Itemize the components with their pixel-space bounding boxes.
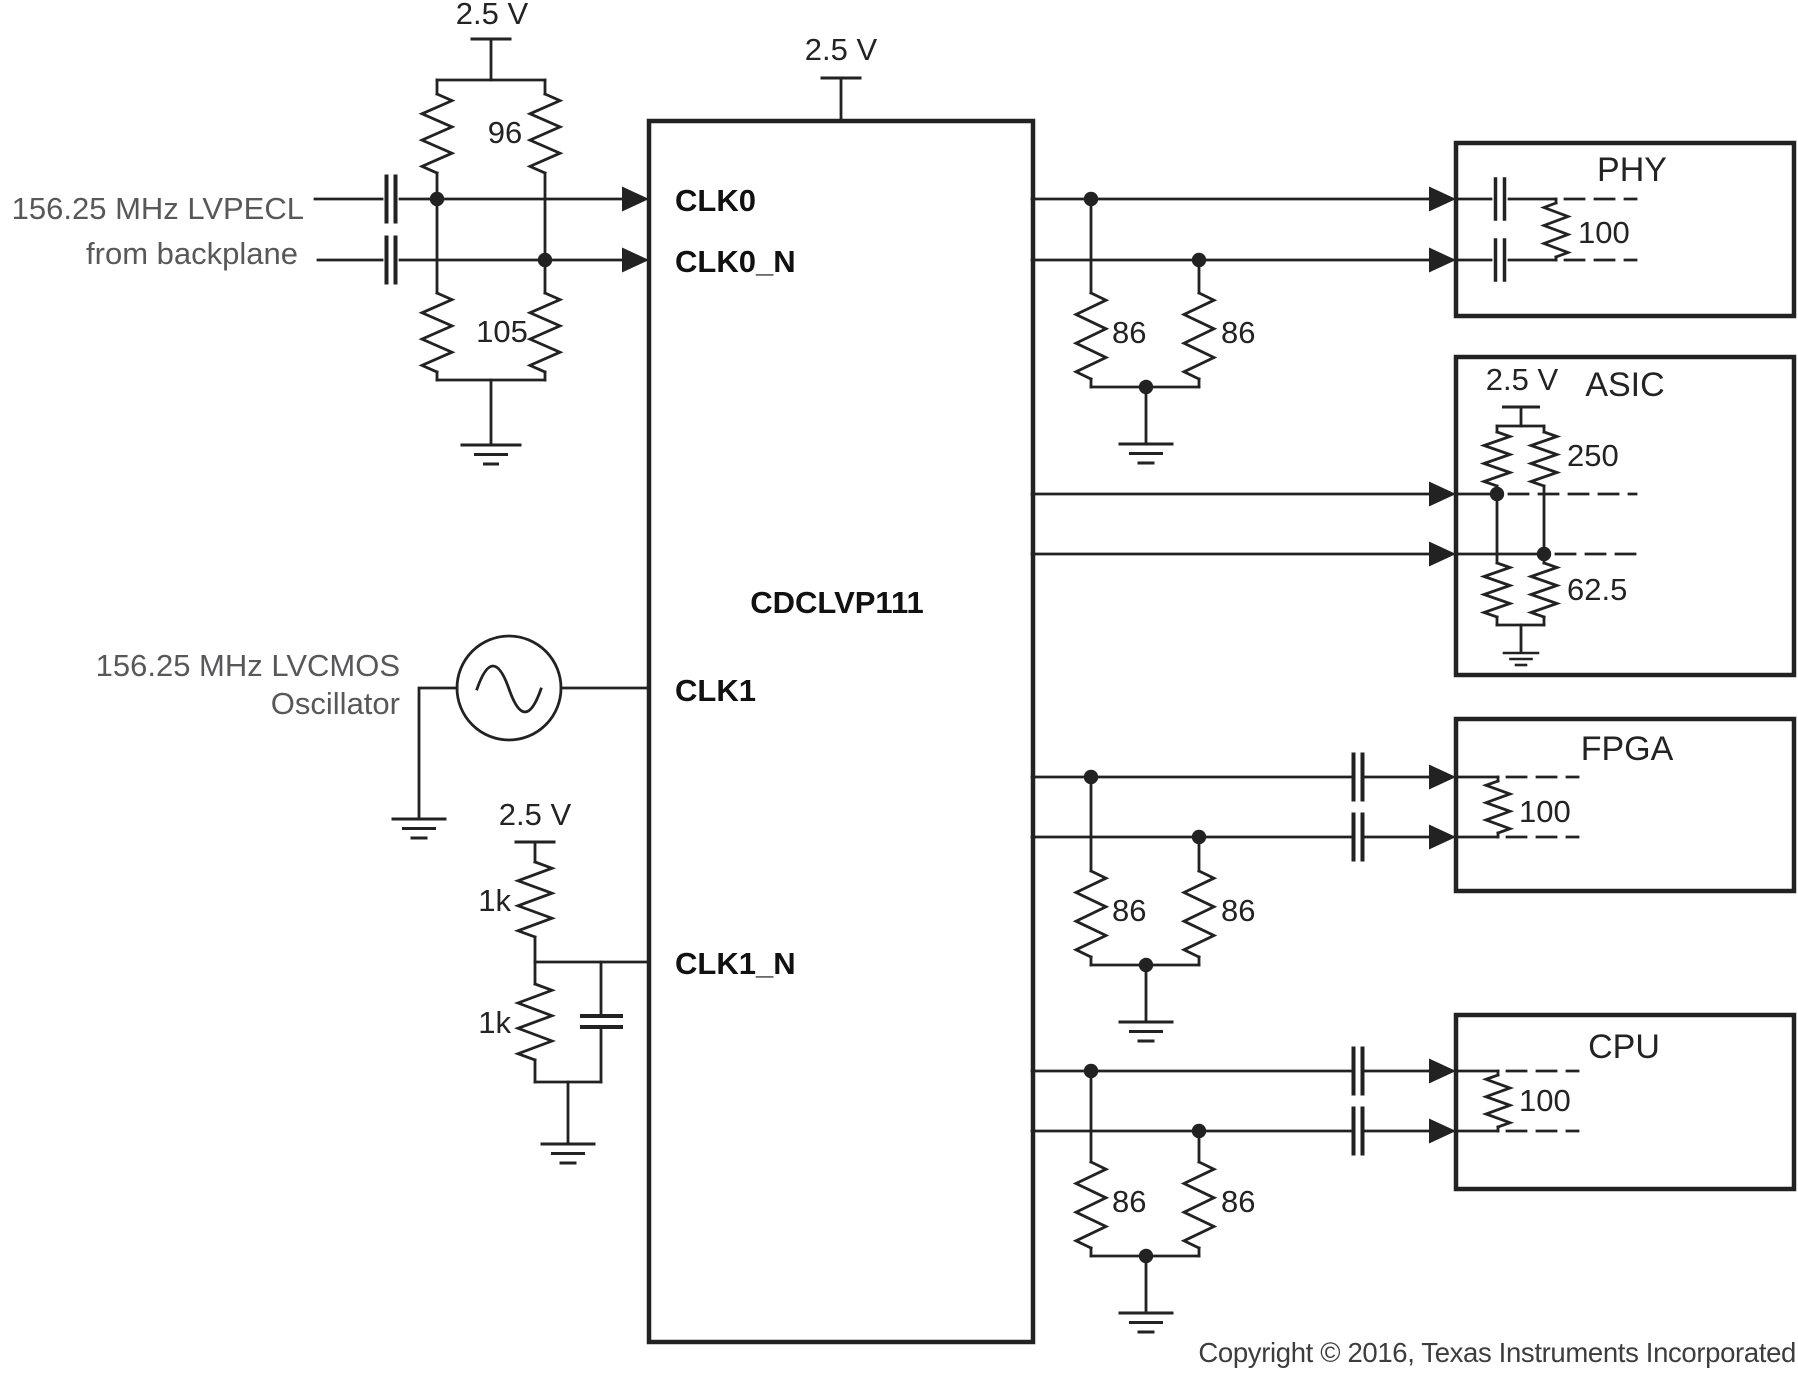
capacitor CLK0_N AC coupling <box>387 238 396 283</box>
wire in CPU line A <box>1456 1070 1498 1073</box>
resistor 96 (right of pair) <box>530 80 560 260</box>
svg-text:100: 100 <box>1519 794 1571 829</box>
wire cap to resistor line B <box>1509 259 1556 262</box>
wire joining 62.5 pair <box>1497 624 1544 627</box>
resistor 250 (right) <box>1531 426 1557 554</box>
svg-text:2.5 V: 2.5 V <box>1486 362 1559 397</box>
wire in FPGA line A <box>1456 776 1498 779</box>
resistor 86 (left) <box>1076 777 1106 965</box>
node output line B junction <box>1192 253 1206 267</box>
resistor 105 (right of pair) <box>530 260 560 380</box>
node CLK0_N / R96-right junction <box>538 253 552 267</box>
svg-text:2.5 V: 2.5 V <box>499 797 572 832</box>
arrowhead Y1 into ASIC <box>1429 482 1456 507</box>
resistor 1k upper <box>518 862 552 962</box>
wire in PHY line B <box>1456 259 1491 262</box>
wire joining 86 pair <box>1091 386 1199 389</box>
wire to ground <box>1145 387 1148 443</box>
svg-text:CDCLVP111: CDCLVP111 <box>750 585 923 620</box>
wire cap to FPGA line B <box>1365 836 1429 839</box>
arrowhead Y3_N into CPU <box>1429 1119 1456 1144</box>
svg-text:CLK0: CLK0 <box>675 183 756 218</box>
wire oscillator output to CLK1 <box>561 687 649 690</box>
node CLK0 / R96 junction <box>430 192 444 206</box>
resistor 96 (left of pair) <box>422 80 452 199</box>
wire output Y2 to FPGA <box>1032 776 1351 779</box>
svg-text:FPGA: FPGA <box>1581 730 1674 768</box>
capacitor Y2 AC coupling <box>1354 755 1363 800</box>
resistor 1k lower <box>518 962 552 1082</box>
resistor 86 (right) <box>1184 1131 1214 1256</box>
svg-text:100: 100 <box>1578 215 1630 250</box>
wire joining 86 pair <box>1091 964 1199 967</box>
resistor 100 (FPGA) <box>1486 777 1510 837</box>
svg-text:156.25 MHz LVPECL: 156.25 MHz LVPECL <box>12 191 304 226</box>
capacitor CLK0 AC coupling <box>387 177 396 222</box>
wire ASIC line B inside <box>1456 553 1544 556</box>
capacitor PHY line B <box>1496 240 1505 280</box>
svg-text:CLK1: CLK1 <box>675 673 756 708</box>
wire output Y3 to CPU <box>1032 1070 1351 1073</box>
dashed termination line A (ASIC) <box>1509 493 1636 496</box>
resistor 86 (right) <box>1184 837 1214 965</box>
wire CLK1_N node <box>535 961 649 964</box>
svg-text:Copyright © 2016, Texas Instru: Copyright © 2016, Texas Instruments Inco… <box>1198 1337 1796 1368</box>
svg-text:2.5 V: 2.5 V <box>805 32 878 67</box>
svg-text:1k: 1k <box>478 1005 511 1040</box>
resistor 86 (left) <box>1076 1071 1106 1256</box>
wire top rail joining R 96 pair <box>437 79 545 82</box>
svg-text:86: 86 <box>1221 315 1255 350</box>
capacitor Y3_N AC coupling <box>1354 1109 1363 1154</box>
wire output Y0 to PHY <box>1032 198 1429 201</box>
resistor 86 (left) <box>1076 199 1106 387</box>
resistor 62.5 (left) <box>1484 494 1510 625</box>
node output line B junction <box>1192 1124 1206 1138</box>
capacitor CLK1_N bypass <box>582 962 621 1082</box>
arrowhead Y0 into PHY <box>1429 187 1456 212</box>
node ASIC line B junction <box>1537 547 1551 561</box>
arrowhead CLK0_N into chip <box>622 248 649 273</box>
node output line A junction <box>1084 1064 1098 1078</box>
svg-text:100: 100 <box>1519 1083 1571 1118</box>
svg-text:62.5: 62.5 <box>1567 572 1627 607</box>
svg-text:86: 86 <box>1112 893 1146 928</box>
svg-text:86: 86 <box>1221 1184 1255 1219</box>
dashed termination line B (PHY) <box>1565 259 1636 262</box>
svg-text:156.25 MHz LVCMOS: 156.25 MHz LVCMOS <box>96 648 400 683</box>
arrowhead CLK0 into chip <box>622 187 649 212</box>
2.5V supply for CLK1_N bias <box>499 797 572 862</box>
wire to ground <box>567 1082 570 1143</box>
wire in PHY line A <box>1456 198 1491 201</box>
wire bias network bottom bar <box>535 1081 601 1084</box>
svg-text:96: 96 <box>488 115 522 150</box>
wire to ground <box>490 380 493 444</box>
node 86 pair junction <box>1139 1249 1153 1263</box>
wire bottom rail of 105 pair <box>437 379 545 382</box>
ground (ASIC) <box>1504 653 1538 665</box>
svg-text:250: 250 <box>1567 438 1619 473</box>
wire to ground (ASIC) <box>1520 625 1523 652</box>
dashed termination line A (CPU) <box>1507 1070 1578 1073</box>
svg-text:86: 86 <box>1112 315 1146 350</box>
receiver box FPGA <box>1456 719 1794 891</box>
receiver box CPU <box>1456 1015 1794 1189</box>
svg-text:Oscillator: Oscillator <box>271 686 400 721</box>
capacitor Y2_N AC coupling <box>1354 815 1363 860</box>
wire output Y1 to ASIC <box>1032 493 1429 496</box>
wire CLK0_N to chip <box>400 259 625 262</box>
ground (oscillator) <box>393 819 445 838</box>
receiver box ASIC <box>1456 357 1794 675</box>
wire in CPU line B <box>1456 1130 1498 1133</box>
capacitor Y3 AC coupling <box>1354 1049 1363 1094</box>
2.5V supply for LVPECL bias <box>456 0 529 80</box>
resistor 86 (right) <box>1184 260 1214 387</box>
wire output Y1_N to ASIC <box>1032 553 1429 556</box>
svg-text:CLK0_N: CLK0_N <box>675 244 796 279</box>
wire CLK0 input <box>315 198 382 201</box>
arrowhead Y3 into CPU <box>1429 1059 1456 1084</box>
svg-text:ASIC: ASIC <box>1585 366 1664 404</box>
2.5V supply for chip <box>805 32 878 121</box>
svg-text:1k: 1k <box>478 883 511 918</box>
node 86 pair junction <box>1139 958 1153 972</box>
wire in FPGA line B <box>1456 836 1498 839</box>
capacitor PHY line A <box>1496 179 1505 219</box>
svg-text:2.5 V: 2.5 V <box>456 0 529 31</box>
arrowhead Y2_N into FPGA <box>1429 825 1456 850</box>
svg-text:CPU: CPU <box>1588 1028 1660 1066</box>
wire CLK0 to chip <box>400 198 625 201</box>
resistor 250 (left) <box>1484 426 1510 494</box>
wire to ground <box>1145 1256 1148 1312</box>
arrowhead Y0_N into PHY <box>1429 248 1456 273</box>
dashed termination line A (FPGA) <box>1507 776 1578 779</box>
node ASIC line A junction <box>1490 487 1504 501</box>
ground (LVPECL bias) <box>462 445 520 464</box>
svg-text:86: 86 <box>1221 893 1255 928</box>
wire to ground <box>1145 965 1148 1021</box>
node output line B junction <box>1192 830 1206 844</box>
wire cap to CPU <box>1365 1070 1429 1073</box>
resistor 62.5 (right) <box>1531 554 1557 625</box>
ground (CLK1_N bias) <box>542 1144 594 1163</box>
wire cap to resistor line A <box>1509 198 1556 201</box>
node output line A junction <box>1084 770 1098 784</box>
svg-text:CLK1_N: CLK1_N <box>675 946 796 981</box>
dashed termination line B (FPGA) <box>1507 836 1578 839</box>
resistor 100 (CPU) <box>1486 1071 1510 1131</box>
wire oscillator ground lead <box>419 688 457 818</box>
wire cap to FPGA <box>1365 776 1429 779</box>
svg-text:105: 105 <box>476 314 528 349</box>
wire joining 86 pair <box>1091 1255 1199 1258</box>
arrowhead Y2 into FPGA <box>1429 765 1456 790</box>
resistor 105 (left of pair) <box>422 199 452 380</box>
wire output Y0_N to PHY <box>1032 259 1429 262</box>
oscillator symbol <box>457 636 561 740</box>
resistor 100 (PHY) <box>1544 203 1568 257</box>
ground (86 pair) <box>1120 1022 1172 1041</box>
wire ASIC line A inside <box>1456 493 1497 496</box>
dashed termination line A (PHY) <box>1565 198 1636 201</box>
wire output Y2_N to FPGA <box>1032 836 1351 839</box>
receiver box PHY <box>1456 143 1794 316</box>
wire ASIC top rail <box>1497 425 1544 428</box>
dashed termination line B (CPU) <box>1507 1130 1578 1133</box>
svg-text:86: 86 <box>1112 1184 1146 1219</box>
arrowhead Y1_N into ASIC <box>1429 542 1456 567</box>
ground (86 pair) <box>1120 444 1172 463</box>
wire cap to CPU line B <box>1365 1130 1429 1133</box>
node 86 pair junction <box>1139 380 1153 394</box>
dashed termination line B (ASIC) <box>1556 553 1636 556</box>
wire CLK0_N input <box>318 259 382 262</box>
supply bar (ASIC) <box>1504 406 1539 409</box>
node output line A junction <box>1084 192 1098 206</box>
svg-text:PHY: PHY <box>1597 151 1667 189</box>
wire output Y3_N to CPU <box>1032 1130 1351 1133</box>
chip CDCLVP111 box <box>649 121 1033 1342</box>
ground (86 pair) <box>1120 1313 1172 1332</box>
svg-text:from backplane: from backplane <box>86 236 298 271</box>
